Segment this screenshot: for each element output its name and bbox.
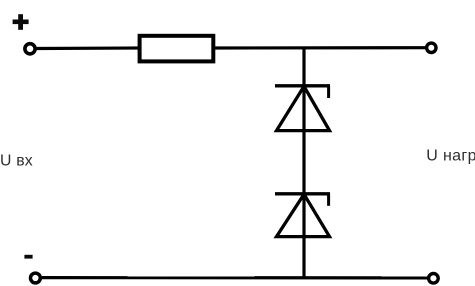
svg-text:U вх: U вх bbox=[0, 153, 33, 170]
svg-text:U нагр: U нагр bbox=[426, 148, 475, 165]
